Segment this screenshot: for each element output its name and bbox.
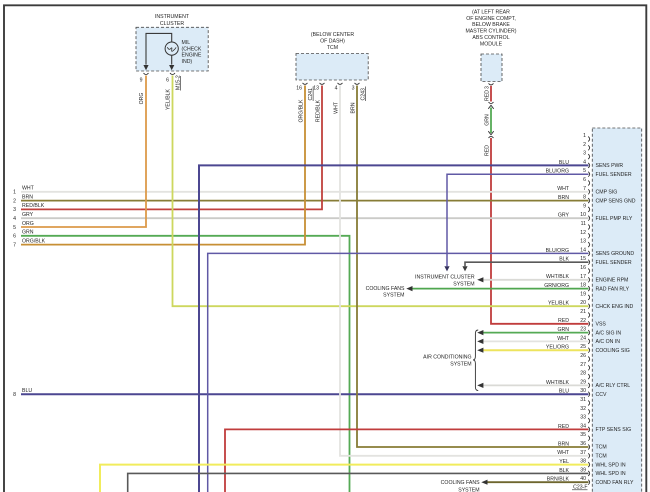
wire 1 WHT to ECM pin 7 bbox=[21, 191, 589, 193]
svg-text:RAD FAN RLY: RAD FAN RLY bbox=[596, 286, 630, 292]
ECM pin 7 terminal bbox=[583, 186, 590, 195]
ECM pin 16 terminal bbox=[580, 265, 589, 274]
svg-text:BLU: BLU bbox=[22, 388, 32, 394]
svg-text:CMP SIG: CMP SIG bbox=[596, 190, 618, 196]
in-line connector junction bottom bbox=[489, 136, 494, 138]
cluster pin 9 terminal bbox=[144, 73, 149, 75]
node cooling fans system upper bbox=[366, 286, 405, 299]
svg-text:4: 4 bbox=[335, 86, 338, 92]
wire 2 BRN to ECM pin 8 bbox=[21, 200, 589, 202]
ECM pin 4 terminal bbox=[583, 159, 590, 168]
node air conditioning system bbox=[423, 355, 471, 368]
ECM pin 12 terminal bbox=[580, 230, 589, 239]
wire RED ECM pin 34 FTP SENS SIG off page bottom bbox=[225, 429, 589, 492]
ECM pin 36 terminal bbox=[580, 441, 589, 450]
svg-text:MIL: MIL bbox=[182, 40, 191, 46]
svg-text:RED/BLK: RED/BLK bbox=[316, 99, 322, 122]
ECM pin 28 terminal bbox=[580, 371, 589, 380]
ABS pin 3 terminal bbox=[489, 83, 494, 85]
svg-text:ABS CONTROL: ABS CONTROL bbox=[472, 35, 509, 41]
cluster pin 6 terminal bbox=[170, 73, 175, 75]
svg-text:WHL SPD IN: WHL SPD IN bbox=[596, 462, 626, 468]
svg-text:SENS GROUND: SENS GROUND bbox=[596, 251, 635, 257]
arrow to air conditioning system bbox=[477, 348, 483, 353]
svg-text:ORG/BLK: ORG/BLK bbox=[299, 99, 305, 123]
svg-text:CHCK ENG IND: CHCK ENG IND bbox=[596, 304, 634, 310]
TCM pin 16 terminal bbox=[303, 83, 308, 85]
svg-text:VSS: VSS bbox=[596, 322, 607, 328]
ECM pin 19 terminal bbox=[580, 291, 589, 300]
svg-text:FUEL SENDER: FUEL SENDER bbox=[596, 172, 632, 178]
ECM pin 32 terminal bbox=[580, 406, 589, 415]
svg-text:WHT: WHT bbox=[334, 101, 340, 114]
connector label C23-F bbox=[572, 485, 588, 491]
svg-text:15: 15 bbox=[580, 256, 586, 262]
svg-text:GRN: GRN bbox=[22, 230, 34, 236]
arrow to instrument cluster system bbox=[477, 277, 483, 282]
ECM pin 37 terminal bbox=[580, 450, 589, 459]
svg-text:INSTRUMENT: INSTRUMENT bbox=[155, 14, 190, 20]
svg-text:11: 11 bbox=[581, 221, 586, 227]
ABS control module box bbox=[481, 54, 502, 82]
ECM pin 20 terminal bbox=[580, 300, 589, 309]
svg-text:COOLING FANS: COOLING FANS bbox=[366, 286, 405, 292]
svg-text:TCM: TCM bbox=[327, 45, 338, 51]
svg-text:1: 1 bbox=[13, 190, 16, 196]
ECM pin 17 terminal bbox=[580, 274, 589, 283]
wire WHT TCM pin 4 to ECM pin 37 bbox=[340, 86, 589, 456]
svg-text:SYSTEM: SYSTEM bbox=[450, 361, 471, 367]
svg-text:8: 8 bbox=[13, 392, 16, 398]
arrow to instrument cluster system bbox=[462, 266, 467, 271]
ECM pin 1 terminal bbox=[583, 133, 590, 142]
TCM box bbox=[296, 54, 368, 81]
svg-text:SYSTEM: SYSTEM bbox=[458, 487, 479, 492]
svg-text:ORG: ORG bbox=[139, 93, 145, 105]
wire RED to ECM pin 22 VSS bbox=[491, 138, 589, 324]
ECM pin 9 terminal bbox=[583, 203, 590, 212]
ECM pin 23 terminal bbox=[580, 327, 589, 336]
ECM pin 22 terminal bbox=[580, 318, 589, 327]
svg-text:26: 26 bbox=[580, 353, 586, 359]
svg-text:14: 14 bbox=[580, 247, 586, 253]
TCM title bbox=[311, 32, 354, 51]
wire BLU/ORG ECM pin 14 SENS GROUND off page bottom bbox=[208, 253, 589, 492]
svg-text:13: 13 bbox=[313, 86, 319, 92]
svg-text:COOLING FANS: COOLING FANS bbox=[441, 480, 480, 486]
svg-text:BRN: BRN bbox=[22, 194, 33, 200]
wire 5 ORG to cluster pin 9 bbox=[21, 76, 146, 228]
svg-text:(BELOW CENTER: (BELOW CENTER bbox=[311, 32, 354, 38]
svg-text:21: 21 bbox=[580, 309, 586, 315]
arrow to instrument cluster system bbox=[444, 266, 449, 271]
svg-text:INSTRUMENT CLUSTER: INSTRUMENT CLUSTER bbox=[415, 275, 475, 281]
ECM pin 40 terminal bbox=[580, 476, 589, 485]
svg-text:6: 6 bbox=[583, 177, 586, 183]
svg-text:FTP SENS SIG: FTP SENS SIG bbox=[596, 427, 632, 433]
svg-text:(AT LEFT REAR: (AT LEFT REAR bbox=[472, 9, 510, 15]
wire BLU/ORG ECM pin 5 to instrument cluster system bbox=[447, 174, 589, 266]
wire GRN jumper bbox=[490, 108, 492, 134]
svg-text:FUEL SENDER: FUEL SENDER bbox=[596, 260, 632, 266]
svg-text:TCM: TCM bbox=[596, 445, 607, 451]
svg-text:6: 6 bbox=[13, 234, 16, 240]
svg-text:ENGINE: ENGINE bbox=[182, 53, 202, 59]
svg-text:RED/BLK: RED/BLK bbox=[22, 203, 45, 209]
svg-text:(CHECK: (CHECK bbox=[182, 46, 202, 52]
ECM pin 24 terminal bbox=[580, 335, 589, 344]
ECM pin 5 terminal bbox=[583, 168, 590, 177]
svg-text:3: 3 bbox=[583, 151, 586, 157]
ECM pin 30 terminal bbox=[580, 388, 589, 397]
svg-text:COOLING SIG: COOLING SIG bbox=[596, 348, 630, 354]
svg-text:28: 28 bbox=[580, 371, 586, 377]
connector label M15-2 bbox=[176, 75, 182, 90]
arrow to cooling fans system bbox=[406, 286, 412, 291]
arrow to air conditioning system bbox=[477, 383, 483, 388]
wire 3 RED/BLK to TCM pin 13 bbox=[21, 86, 322, 210]
svg-text:RED: RED bbox=[484, 90, 490, 101]
ECM pin 10 terminal bbox=[580, 212, 589, 221]
wire GRN/ORG ECM pin 18 RAD FAN RLY bbox=[412, 288, 589, 290]
svg-text:6: 6 bbox=[166, 78, 169, 84]
svg-text:9: 9 bbox=[140, 78, 143, 84]
ECM pin 34 terminal bbox=[580, 423, 589, 432]
instrument cluster title bbox=[155, 14, 190, 27]
ECM pin 8 terminal bbox=[583, 195, 590, 204]
svg-text:RED: RED bbox=[484, 145, 490, 156]
svg-text:13: 13 bbox=[580, 239, 586, 245]
svg-text:MODULE: MODULE bbox=[480, 41, 503, 47]
ECM pin 27 terminal bbox=[580, 362, 589, 371]
ECM pin 3 terminal bbox=[583, 151, 590, 160]
ECM pin 38 terminal bbox=[580, 459, 589, 468]
svg-text:YEL/BLK: YEL/BLK bbox=[166, 88, 172, 110]
svg-text:BRN: BRN bbox=[351, 102, 357, 113]
svg-text:FUEL PMP RLY: FUEL PMP RLY bbox=[596, 216, 633, 222]
svg-text:3: 3 bbox=[13, 207, 16, 213]
svg-text:3: 3 bbox=[484, 86, 490, 89]
ECM pin 25 terminal bbox=[580, 344, 589, 353]
svg-text:TCM: TCM bbox=[596, 454, 607, 460]
wire WHT/BLK ECM pin 29 A/C RLY CTRL bbox=[483, 384, 589, 386]
svg-text:9: 9 bbox=[583, 203, 586, 209]
svg-text:CMP SENS GND: CMP SENS GND bbox=[596, 198, 636, 204]
wire RED from ABS pin 3 bbox=[490, 86, 492, 102]
wire YEL/ORG ECM pin 25 COOLING SIG bbox=[483, 349, 589, 351]
svg-text:CCV: CCV bbox=[596, 392, 607, 398]
svg-text:7: 7 bbox=[13, 242, 16, 248]
cluster internal wiring bbox=[146, 33, 172, 64]
ECM pin 13 terminal bbox=[580, 239, 589, 248]
arrow to cooling fans system bbox=[481, 480, 487, 485]
MIL lamp symbol bbox=[165, 42, 178, 55]
svg-text:1: 1 bbox=[583, 133, 586, 139]
wire 7 ORG/BLK to TCM pin 16 bbox=[21, 86, 305, 245]
svg-text:SENS PWR: SENS PWR bbox=[596, 163, 624, 169]
ECM pin 26 terminal bbox=[580, 353, 589, 362]
ECM pin 11 terminal bbox=[581, 221, 590, 230]
arrow to air conditioning system bbox=[477, 339, 483, 344]
wire BLK ECM pin 39 WHL SPD IN off page bottom bbox=[128, 473, 589, 492]
svg-text:27: 27 bbox=[580, 362, 586, 368]
svg-text:CLUSTER: CLUSTER bbox=[160, 21, 184, 27]
ECM connector box C23-F bbox=[592, 128, 641, 492]
MIL label bbox=[182, 40, 202, 65]
svg-text:OF ENGINE COMPT,: OF ENGINE COMPT, bbox=[466, 16, 516, 22]
TCM pin 3 terminal bbox=[355, 83, 360, 85]
svg-text:4: 4 bbox=[13, 216, 16, 222]
ECM pin 35 terminal bbox=[580, 432, 589, 441]
GRN terminal arrows bbox=[488, 105, 493, 109]
wire GRN ECM pin 23 A/C SIG IN bbox=[483, 332, 589, 334]
ECM pin 33 terminal bbox=[580, 415, 589, 424]
wire 8 BLU to ECM pin 30 CCV bbox=[21, 393, 589, 395]
ECM pin 6 terminal bbox=[583, 177, 590, 186]
svg-text:2: 2 bbox=[583, 142, 586, 148]
wire WHT ECM pin 24 A/C ON IN bbox=[483, 340, 589, 342]
node instrument cluster system bbox=[415, 275, 475, 288]
svg-text:ORG: ORG bbox=[22, 221, 34, 227]
svg-text:31: 31 bbox=[580, 397, 586, 403]
TCM pin 4 terminal bbox=[338, 83, 343, 85]
svg-text:19: 19 bbox=[580, 291, 586, 297]
svg-text:12: 12 bbox=[580, 230, 586, 236]
svg-text:35: 35 bbox=[580, 432, 586, 438]
wire BLU ECM pin 4 SENS PWR off page bottom bbox=[199, 165, 589, 492]
ECM pin 39 terminal bbox=[580, 467, 589, 476]
svg-text:5: 5 bbox=[583, 168, 586, 174]
svg-text:MASTER CYLINDER): MASTER CYLINDER) bbox=[465, 29, 516, 35]
svg-text:3: 3 bbox=[352, 86, 355, 92]
svg-text:ENGINE RPM: ENGINE RPM bbox=[596, 278, 629, 284]
wire YEL/BLK cluster pin 6 to ECM pin 20 bbox=[173, 76, 589, 307]
node cooling fans system lower bbox=[441, 480, 480, 492]
wire WHT/BLK ECM pin 17 ENGINE RPM bbox=[483, 279, 589, 281]
wire BLK ECM pin 15 to instrument cluster system bbox=[465, 262, 589, 266]
svg-text:16: 16 bbox=[580, 265, 586, 271]
wire 6 GRN off page bottom bbox=[21, 236, 350, 492]
ECM pin 15 terminal bbox=[580, 256, 589, 265]
svg-text:39: 39 bbox=[580, 467, 586, 473]
wire 4 GRY to ECM pin 10 bbox=[21, 217, 589, 219]
svg-text:WHT: WHT bbox=[22, 186, 35, 192]
svg-text:SYSTEM: SYSTEM bbox=[383, 293, 404, 299]
cluster internal arrows to pins bbox=[143, 65, 148, 70]
ECM pin 21 terminal bbox=[580, 309, 589, 318]
in-line connector junction top bbox=[489, 102, 494, 104]
svg-text:OF DASH): OF DASH) bbox=[320, 39, 345, 45]
ABS title bbox=[465, 9, 516, 47]
svg-text:COND FAN RLY: COND FAN RLY bbox=[596, 480, 634, 486]
svg-text:GRN: GRN bbox=[484, 114, 490, 126]
ECM pin 2 terminal bbox=[583, 142, 590, 151]
arrow to air conditioning system bbox=[477, 330, 483, 335]
brace for air conditioning system bbox=[473, 330, 478, 391]
connector label C243 bbox=[361, 87, 367, 102]
svg-text:33: 33 bbox=[580, 415, 586, 421]
ECM pin 14 terminal bbox=[580, 247, 589, 256]
wire BRN/BLK ECM pin 40 COND FAN RLY bbox=[487, 481, 589, 483]
svg-text:A/C RLY CTRL: A/C RLY CTRL bbox=[596, 383, 631, 389]
svg-text:IND): IND) bbox=[182, 59, 193, 65]
svg-text:16: 16 bbox=[296, 86, 302, 92]
connector label C241 bbox=[308, 87, 314, 102]
svg-text:ORG/BLK: ORG/BLK bbox=[22, 238, 46, 244]
svg-text:5: 5 bbox=[13, 225, 16, 231]
svg-text:WHL SPD IN: WHL SPD IN bbox=[596, 471, 626, 477]
ECM pin 31 terminal bbox=[580, 397, 589, 406]
TCM pin 13 terminal bbox=[320, 83, 325, 85]
svg-text:GRY: GRY bbox=[22, 212, 34, 218]
svg-text:AIR CONDITIONING: AIR CONDITIONING bbox=[423, 355, 471, 361]
ECM pin 18 terminal bbox=[580, 283, 589, 292]
svg-text:A/C SIG IN: A/C SIG IN bbox=[596, 330, 622, 336]
svg-text:BELOW BRAKE: BELOW BRAKE bbox=[472, 22, 510, 28]
instrument cluster box bbox=[136, 27, 208, 71]
svg-text:2: 2 bbox=[13, 198, 16, 204]
svg-text:32: 32 bbox=[580, 406, 586, 412]
svg-text:A/C ON IN: A/C ON IN bbox=[596, 339, 621, 345]
wire YEL ECM pin 38 WHL SPD IN off page bottom bbox=[100, 465, 589, 492]
ECM pin 29 terminal bbox=[580, 379, 589, 388]
svg-text:SYSTEM: SYSTEM bbox=[453, 281, 474, 287]
wire BRN TCM pin 3 to ECM pin 36 bbox=[357, 86, 589, 448]
